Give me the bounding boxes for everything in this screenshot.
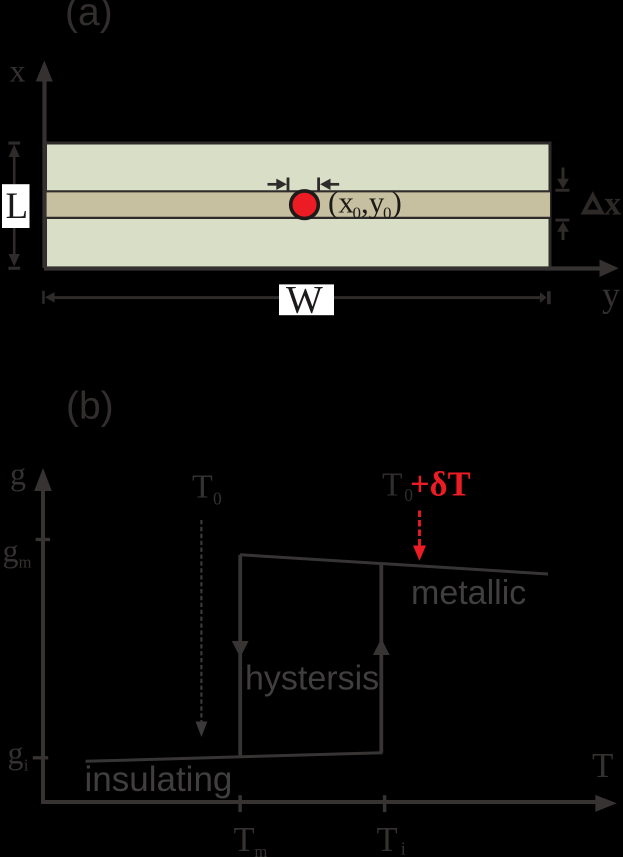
svg-text:g: g xyxy=(8,735,24,771)
tick g_i xyxy=(33,756,48,759)
y-axis xyxy=(44,260,619,278)
band bottom edge xyxy=(44,217,552,219)
svg-text:,y: ,y xyxy=(361,185,385,220)
dot marker right arrow xyxy=(317,178,339,191)
svg-text:g: g xyxy=(3,533,19,569)
svg-text:g: g xyxy=(10,456,26,492)
svg-text:T: T xyxy=(592,746,613,785)
svg-text:T: T xyxy=(377,821,398,857)
tick T_i xyxy=(383,795,387,812)
svg-text:(a): (a) xyxy=(65,0,113,34)
label W xyxy=(279,279,334,322)
T-axis xyxy=(41,795,617,812)
Δx upper arrow xyxy=(555,168,569,192)
svg-text:(x: (x xyxy=(328,185,354,220)
channel band Δx xyxy=(46,191,551,218)
svg-text:i: i xyxy=(401,838,406,857)
dot marker left arrow xyxy=(268,178,290,191)
svg-text:T: T xyxy=(234,821,255,857)
label Δx xyxy=(581,191,605,214)
svg-text:L: L xyxy=(6,186,29,227)
svg-text:0: 0 xyxy=(353,204,362,223)
svg-text:x: x xyxy=(604,185,621,222)
tick T_m xyxy=(238,795,242,812)
svg-text:0: 0 xyxy=(383,204,392,223)
svg-text:m: m xyxy=(255,842,268,857)
g-axis xyxy=(34,468,52,804)
svg-text:T: T xyxy=(382,466,402,503)
svg-text:W: W xyxy=(286,279,323,322)
L dimension arrow xyxy=(8,142,20,270)
Δx lower arrow xyxy=(555,219,569,240)
svg-text:insulating: insulating xyxy=(85,760,233,799)
band top edge xyxy=(44,190,552,192)
svg-text:): ) xyxy=(392,185,402,220)
svg-text:metallic: metallic xyxy=(411,574,526,612)
svg-text:y: y xyxy=(602,275,620,315)
label L xyxy=(2,184,30,228)
svg-text:0: 0 xyxy=(213,488,222,508)
svg-text:x: x xyxy=(10,53,26,89)
metallic branch line xyxy=(240,555,548,574)
svg-text:i: i xyxy=(24,755,29,774)
x-axis xyxy=(36,61,53,269)
svg-text:+δT: +δT xyxy=(410,465,471,503)
heating transition at T_i xyxy=(373,564,390,753)
T0 dashed arrow xyxy=(196,520,208,737)
svg-text:T: T xyxy=(192,469,213,506)
svg-text:(b): (b) xyxy=(66,385,114,428)
cooling transition at T_m xyxy=(232,555,249,757)
W dimension arrow xyxy=(42,291,550,304)
T0+δT red dashed arrow xyxy=(413,511,426,561)
svg-text:hystersis: hystersis xyxy=(245,660,379,698)
svg-text:m: m xyxy=(19,553,32,572)
red dot (x0,y0) xyxy=(291,191,319,219)
sample rectangle xyxy=(46,143,551,268)
label (x0,y0) xyxy=(328,185,402,223)
tick g_m xyxy=(36,538,51,541)
insulating branch line xyxy=(86,753,383,762)
